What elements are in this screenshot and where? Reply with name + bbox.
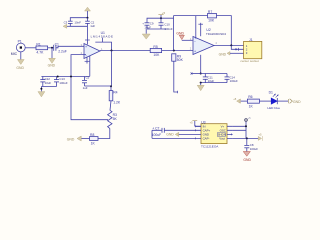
wire rail B bbox=[41, 87, 56, 92]
capacitor C8 bbox=[244, 138, 249, 151]
wire bias rail bbox=[147, 16, 174, 51]
resistor R7 bbox=[208, 14, 217, 18]
svg-text:100uF: 100uF bbox=[152, 133, 162, 137]
wire mic to R1 bbox=[25, 47, 36, 49]
svg-text:R4: R4 bbox=[113, 90, 117, 94]
wire caps bottom rail right bbox=[146, 29, 166, 34]
svg-text:R1: R1 bbox=[36, 43, 40, 47]
capacitor C2 bbox=[85, 18, 90, 24]
svg-text:10K: 10K bbox=[153, 53, 160, 57]
VCC power arrow bbox=[85, 7, 91, 11]
op-amp U2 bbox=[193, 37, 214, 55]
wire U1 V- pin bbox=[86, 57, 88, 64]
svg-text:5K: 5K bbox=[113, 117, 118, 121]
wire mic to ground bbox=[20, 52, 22, 60]
wire U2 feedback loop bbox=[174, 16, 232, 46]
svg-text:R6: R6 bbox=[248, 95, 252, 99]
capacitor C3 bbox=[68, 21, 73, 23]
resistor R8 bbox=[90, 137, 99, 141]
resistor R1 bbox=[36, 46, 48, 50]
ground (C9/C10) bbox=[142, 34, 150, 39]
svg-text:GND: GND bbox=[293, 100, 301, 104]
ground (rail B) bbox=[38, 92, 45, 97]
resistor R3 (zigzag) bbox=[108, 110, 112, 128]
ground (mic) bbox=[17, 60, 24, 65]
node R5/R9 junction bbox=[173, 50, 175, 52]
ground (LED, right arrow) bbox=[288, 99, 292, 104]
capacitor C7 loop bbox=[152, 130, 196, 138]
svg-text:GND: GND bbox=[219, 53, 227, 57]
svg-text:MIC: MIC bbox=[11, 52, 18, 56]
wire R3 bottom to R8 bbox=[98, 128, 110, 138]
resistor R9 bbox=[172, 54, 176, 61]
node supply junction bbox=[87, 17, 89, 19]
svg-text:C3: C3 bbox=[64, 21, 68, 25]
capacitor C12 bbox=[40, 77, 45, 87]
wire R5 to U2 bbox=[162, 50, 193, 52]
svg-text:R8: R8 bbox=[90, 133, 94, 137]
svg-text:+5: +5 bbox=[190, 121, 194, 125]
resistor R6 bbox=[247, 99, 259, 103]
capacitor C11 bbox=[203, 74, 208, 83]
svg-text:1uF: 1uF bbox=[83, 86, 88, 90]
wire R1 to node A bbox=[48, 47, 54, 49]
svg-text:CAP-: CAP- bbox=[203, 137, 210, 141]
svg-text:10nF: 10nF bbox=[74, 21, 81, 25]
power port +5 (bias) bbox=[160, 15, 162, 19]
capacitor C10 bbox=[159, 18, 164, 29]
svg-text:100uF: 100uF bbox=[59, 81, 67, 85]
svg-text:P1: P1 bbox=[18, 39, 22, 43]
node output junction bbox=[111, 50, 113, 52]
svg-text:J1: J1 bbox=[249, 38, 253, 42]
wire output stub over apex bbox=[95, 38, 111, 51]
svg-text:10K: 10K bbox=[208, 18, 215, 22]
wire U2 pin1 from red ground bbox=[182, 39, 193, 41]
ground (caps rail, left arrow) bbox=[63, 24, 67, 28]
node U2 output junction bbox=[230, 44, 232, 46]
svg-text:2.2uF: 2.2uF bbox=[58, 50, 67, 54]
wire C1 to U1 +in bbox=[56, 46, 86, 48]
resistor R5 bbox=[150, 48, 161, 52]
wire node A down bbox=[51, 48, 53, 59]
capacitor C13 bbox=[54, 77, 59, 87]
svg-text:TC1121EOA: TC1121EOA bbox=[201, 144, 219, 148]
wire output to J1 pin2 bbox=[231, 45, 243, 49]
capacitor C9 bbox=[145, 23, 150, 29]
svg-text:100uF: 100uF bbox=[250, 147, 258, 151]
svg-text:R7: R7 bbox=[208, 10, 212, 14]
wire U3 right vertical bbox=[233, 122, 246, 139]
op-amp U1 bbox=[84, 44, 100, 59]
LED D1 bbox=[271, 94, 278, 104]
ground (R8, left arrow) bbox=[77, 136, 81, 141]
wire caps bottom rail bbox=[70, 23, 87, 26]
wire V- bottom rail bbox=[201, 82, 227, 84]
svg-text:1.2K: 1.2K bbox=[113, 101, 121, 105]
wire R8 to ground bbox=[81, 138, 89, 140]
svg-text:LED blue: LED blue bbox=[267, 106, 280, 110]
wire V- rail bbox=[201, 73, 227, 75]
power port +5 (U3 IN) bbox=[195, 121, 201, 127]
IC U3 bbox=[201, 124, 227, 144]
power port +5 (Vout) bbox=[258, 136, 262, 141]
wire U1 inverting input bbox=[71, 55, 108, 120]
wire C5 to R4 top bbox=[85, 85, 112, 87]
wire U1 V+ pin bbox=[87, 26, 89, 44]
svg-text:4.7K: 4.7K bbox=[36, 51, 44, 55]
svg-text:+5: +5 bbox=[162, 11, 166, 15]
ground red (C8) bbox=[243, 152, 250, 157]
resistor R4 bbox=[109, 91, 113, 101]
capacitor C14 bbox=[225, 74, 230, 83]
capacitor C1 bbox=[54, 45, 56, 51]
mic connector P1 bbox=[16, 43, 25, 52]
U3 pin stubs right bbox=[227, 126, 233, 138]
wire R9 to stub bbox=[174, 61, 178, 92]
ground (U2) bbox=[197, 85, 204, 90]
wire V- left stub bbox=[192, 73, 201, 75]
wire supply rail top bbox=[70, 18, 87, 21]
svg-text:+5: +5 bbox=[258, 133, 262, 137]
wire feedback vertical bbox=[111, 51, 113, 87]
svg-text:+: + bbox=[194, 50, 196, 54]
svg-text:center socket: center socket bbox=[240, 59, 259, 63]
svg-text:TDA2030CSD4: TDA2030CSD4 bbox=[206, 32, 226, 36]
capacitor C5 bbox=[82, 77, 87, 87]
wire R4 to R3 bbox=[110, 101, 111, 110]
wire U2 V+ stub bbox=[200, 23, 202, 36]
svg-text:+ C7: + C7 bbox=[152, 127, 159, 131]
ground (node A) bbox=[49, 58, 56, 63]
svg-text:1uF: 1uF bbox=[90, 24, 95, 28]
svg-text:100uF: 100uF bbox=[230, 79, 238, 83]
node R4 top bbox=[110, 85, 112, 87]
svg-text:1K: 1K bbox=[91, 141, 96, 145]
svg-text:GND: GND bbox=[166, 133, 174, 137]
svg-text:C5: C5 bbox=[86, 75, 90, 79]
node A junction bbox=[51, 47, 53, 49]
svg-text:GND: GND bbox=[16, 66, 24, 70]
svg-text:GND: GND bbox=[243, 158, 251, 162]
svg-text:Vout: Vout bbox=[219, 137, 225, 141]
svg-text:D1: D1 bbox=[269, 90, 273, 94]
wire U1 output bbox=[100, 50, 150, 52]
bias rail A bbox=[41, 76, 89, 78]
wire +5 to R6 bbox=[241, 100, 248, 102]
wire node to R4 bbox=[110, 86, 112, 90]
wire R6 to D1 bbox=[259, 100, 271, 102]
wire U2 output bbox=[214, 45, 244, 47]
svg-text:1K: 1K bbox=[249, 105, 254, 109]
svg-text:R5: R5 bbox=[153, 45, 157, 49]
svg-text:+5: +5 bbox=[233, 97, 237, 101]
U3 pin stubs left bbox=[196, 126, 201, 138]
wire Vout row bbox=[233, 137, 259, 139]
node circle port bbox=[245, 119, 248, 122]
wire U2 V- pin bbox=[200, 55, 202, 74]
wire D1 to ground bbox=[277, 100, 288, 102]
connector J1 bbox=[244, 41, 262, 58]
svg-text:50K: 50K bbox=[177, 58, 184, 62]
svg-text:GND: GND bbox=[48, 64, 56, 68]
svg-text:GND: GND bbox=[67, 137, 75, 141]
wire U1 V- to rail A bbox=[89, 56, 91, 76]
svg-text:LM1458ADE: LM1458ADE bbox=[91, 34, 114, 38]
svg-text:+: + bbox=[85, 45, 87, 49]
svg-text:10uF: 10uF bbox=[45, 81, 52, 85]
